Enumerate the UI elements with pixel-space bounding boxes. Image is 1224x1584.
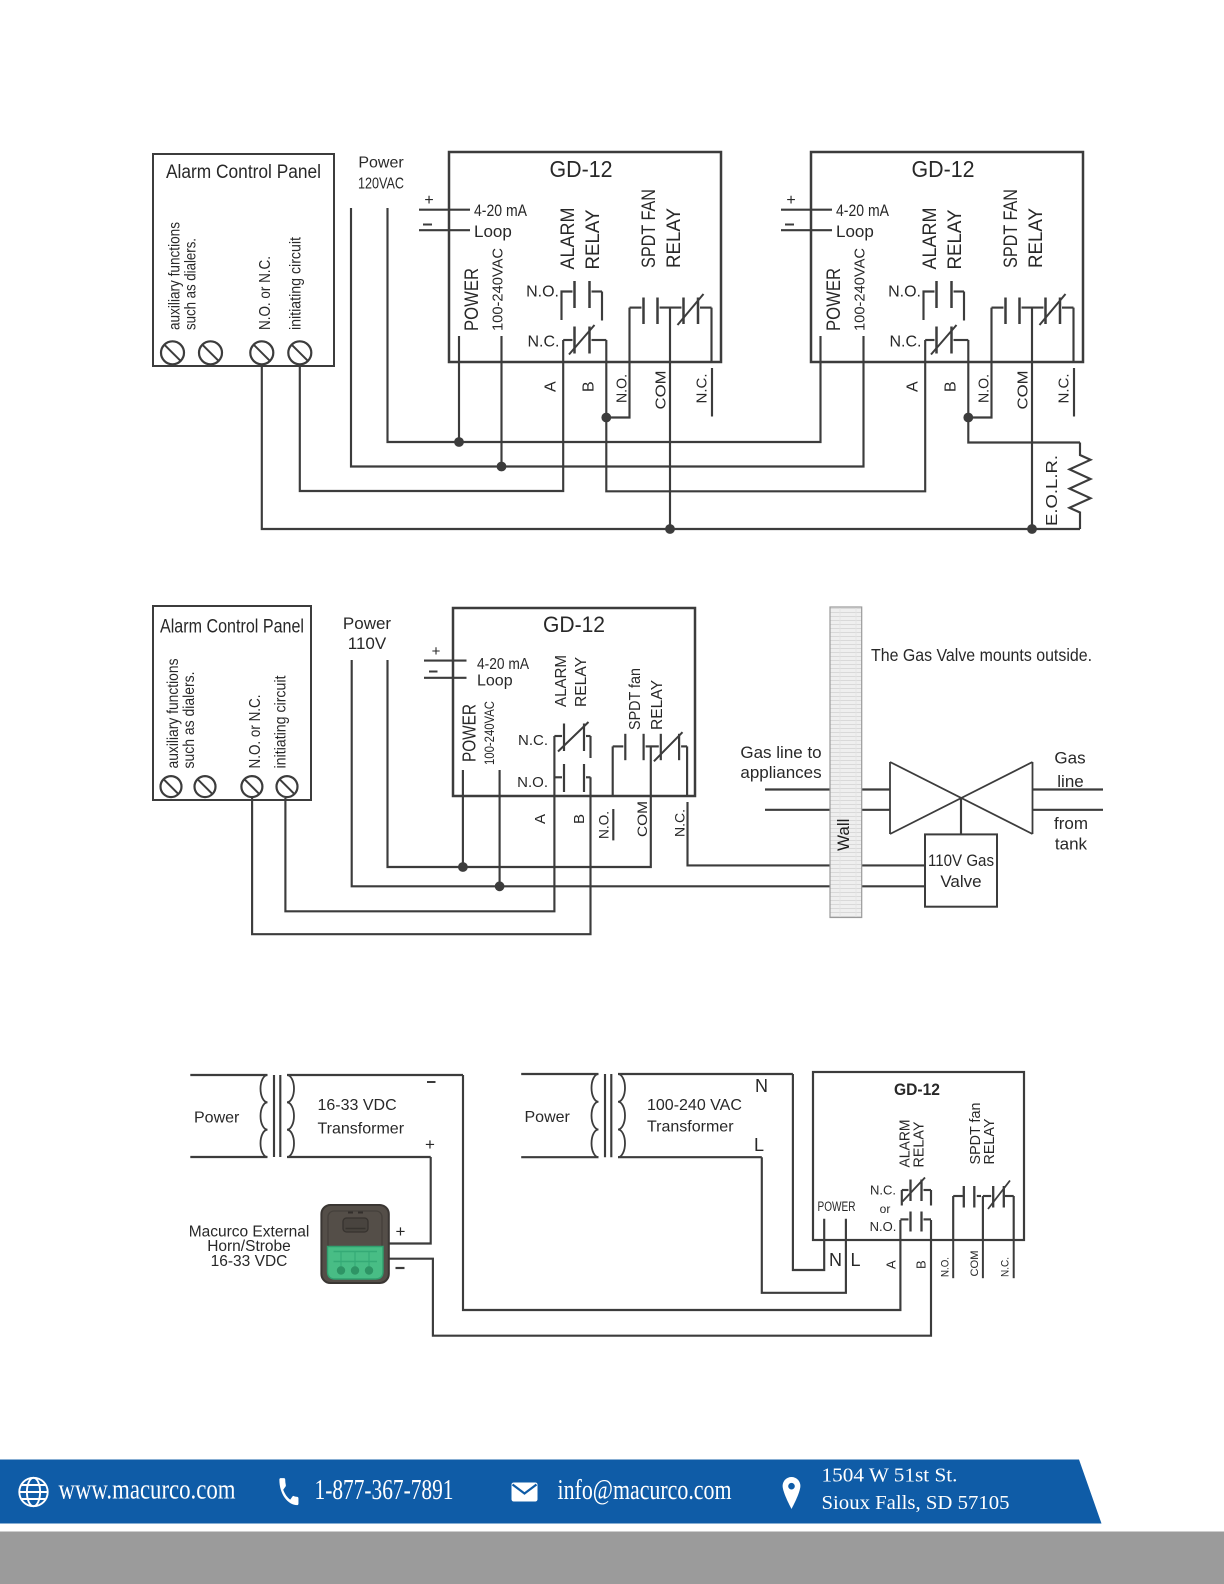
- svg-text:N.C.: N.C.: [518, 732, 548, 749]
- svg-text:Wall: Wall: [834, 819, 853, 851]
- svg-text:B: B: [581, 381, 598, 392]
- svg-text:100-240VAC: 100-240VAC: [490, 248, 507, 331]
- svg-text:line: line: [1057, 772, 1083, 791]
- svg-text:N.C.: N.C.: [870, 1183, 896, 1198]
- svg-text:Valve: Valve: [940, 872, 981, 891]
- svg-text:from: from: [1054, 814, 1088, 833]
- svg-text:A: A: [884, 1260, 899, 1269]
- svg-text:N.O.: N.O.: [614, 374, 631, 403]
- svg-text:RELAY: RELAY: [649, 680, 666, 730]
- svg-text:RELAY: RELAY: [981, 1119, 998, 1165]
- svg-text:The Gas Valve mounts outside.: The Gas Valve mounts outside.: [871, 645, 1092, 665]
- svg-text:initiating circuit: initiating circuit: [287, 236, 304, 330]
- svg-text:N.O.: N.O.: [976, 374, 993, 403]
- svg-text:ALARM: ALARM: [558, 208, 579, 270]
- svg-text:110V: 110V: [348, 634, 387, 653]
- svg-text:N.C.: N.C.: [890, 334, 922, 351]
- svg-text:A: A: [532, 814, 549, 824]
- svg-text:auxiliary functions: auxiliary functions: [167, 222, 184, 330]
- svg-text:ALARM: ALARM: [553, 655, 570, 707]
- svg-text:appliances: appliances: [740, 763, 821, 782]
- svg-text:POWER: POWER: [824, 268, 845, 331]
- svg-text:100-240VAC: 100-240VAC: [481, 701, 497, 765]
- svg-text:16-33 VDC: 16-33 VDC: [211, 1253, 288, 1270]
- svg-text:Alarm Control Panel: Alarm Control Panel: [166, 162, 321, 183]
- svg-text:16-33 VDC: 16-33 VDC: [318, 1097, 397, 1114]
- svg-text:auxiliary functions: auxiliary functions: [165, 658, 182, 768]
- svg-text:N.O. or N.C.: N.O. or N.C.: [257, 256, 274, 330]
- svg-text:RELAY: RELAY: [911, 1122, 928, 1168]
- svg-text:N.C.: N.C.: [528, 334, 560, 351]
- svg-text:Sioux Falls, SD 57105: Sioux Falls, SD 57105: [822, 1492, 1010, 1514]
- svg-text:Loop: Loop: [836, 222, 874, 241]
- svg-text:N.O. or N.C.: N.O. or N.C.: [247, 695, 264, 769]
- svg-text:COM: COM: [653, 371, 670, 410]
- svg-text:GD-12: GD-12: [550, 156, 613, 182]
- svg-text:COM: COM: [1015, 371, 1032, 410]
- svg-text:L: L: [754, 1135, 764, 1155]
- svg-text:GD-12: GD-12: [543, 612, 605, 637]
- svg-text:Power: Power: [525, 1109, 571, 1126]
- svg-text:Alarm Control Panel: Alarm Control Panel: [160, 617, 304, 638]
- svg-text:tank: tank: [1055, 835, 1088, 854]
- svg-text:N.C.: N.C.: [694, 374, 711, 404]
- svg-text:Power: Power: [194, 1110, 240, 1127]
- svg-text:Transformer: Transformer: [318, 1121, 405, 1138]
- svg-text:RELAY: RELAY: [1026, 208, 1047, 268]
- svg-text:GD-12: GD-12: [912, 156, 975, 182]
- svg-text:info@macurco.com: info@macurco.com: [558, 1475, 732, 1506]
- svg-text:Power: Power: [343, 614, 392, 633]
- svg-text:ALARM: ALARM: [920, 208, 941, 270]
- svg-text:www.macurco.com: www.macurco.com: [59, 1474, 236, 1505]
- svg-text:Gas line to: Gas line to: [740, 743, 821, 762]
- svg-text:+: +: [786, 192, 795, 209]
- svg-text:4-20 mA: 4-20 mA: [477, 656, 529, 673]
- svg-text:Power: Power: [358, 155, 404, 172]
- svg-text:+: +: [425, 1135, 435, 1154]
- svg-text:such as dialers.: such as dialers.: [181, 672, 198, 769]
- svg-text:B: B: [943, 381, 960, 392]
- svg-text:4-20 mA: 4-20 mA: [474, 201, 528, 220]
- svg-text:N.O.: N.O.: [596, 811, 612, 839]
- svg-text:SPDT FAN: SPDT FAN: [639, 189, 660, 268]
- svg-text:COM: COM: [969, 1251, 981, 1277]
- svg-text:such as dialers.: such as dialers.: [183, 238, 200, 330]
- svg-text:N: N: [829, 1250, 842, 1270]
- svg-text:POWER: POWER: [462, 268, 483, 331]
- svg-text:A: A: [905, 381, 922, 392]
- svg-text:1504 W 51st St.: 1504 W 51st St.: [822, 1465, 958, 1487]
- svg-text:N.C.: N.C.: [672, 809, 688, 837]
- svg-text:N.C.: N.C.: [1000, 1257, 1012, 1277]
- svg-text:N.C.: N.C.: [1056, 374, 1073, 404]
- svg-text:Loop: Loop: [477, 673, 513, 690]
- svg-text:N.O.: N.O.: [526, 284, 559, 301]
- svg-text:SPDT fan: SPDT fan: [627, 668, 644, 730]
- svg-text:4-20 mA: 4-20 mA: [836, 201, 890, 220]
- svg-text:initiating circuit: initiating circuit: [273, 675, 290, 769]
- svg-text:120VAC: 120VAC: [358, 176, 404, 193]
- svg-text:Gas: Gas: [1054, 749, 1085, 768]
- svg-text:GD-12: GD-12: [894, 1080, 940, 1099]
- svg-text:+: +: [396, 1222, 406, 1241]
- svg-text:N.O.: N.O.: [517, 774, 548, 791]
- svg-text:POWER: POWER: [460, 704, 480, 762]
- svg-text:N.O.: N.O.: [888, 284, 921, 301]
- svg-text:POWER: POWER: [818, 1199, 856, 1214]
- svg-text:RELAY: RELAY: [583, 209, 604, 269]
- svg-text:or: or: [880, 1202, 891, 1216]
- svg-text:COM: COM: [634, 801, 650, 837]
- svg-text:+: +: [432, 643, 441, 660]
- svg-text:RELAY: RELAY: [664, 208, 685, 268]
- svg-text:N.O.: N.O.: [870, 1219, 897, 1234]
- svg-text:N: N: [755, 1076, 768, 1096]
- svg-text:110V Gas: 110V Gas: [928, 851, 994, 870]
- svg-text:+: +: [424, 192, 433, 209]
- svg-text:RELAY: RELAY: [945, 209, 966, 269]
- svg-text:Transformer: Transformer: [647, 1119, 734, 1136]
- svg-text:N.O.: N.O.: [940, 1257, 952, 1277]
- svg-text:100-240VAC: 100-240VAC: [852, 248, 869, 331]
- svg-text:B: B: [571, 814, 588, 824]
- svg-text:A: A: [543, 381, 560, 392]
- svg-text:SPDT FAN: SPDT FAN: [1001, 189, 1022, 268]
- svg-text:Loop: Loop: [474, 222, 512, 241]
- svg-text:B: B: [914, 1260, 929, 1269]
- svg-text:RELAY: RELAY: [573, 657, 590, 707]
- svg-text:100-240 VAC: 100-240 VAC: [647, 1097, 742, 1114]
- svg-text:E.O.L.R.: E.O.L.R.: [1044, 455, 1061, 526]
- svg-text:L: L: [851, 1250, 861, 1270]
- svg-text:1-877-367-7891: 1-877-367-7891: [315, 1475, 454, 1506]
